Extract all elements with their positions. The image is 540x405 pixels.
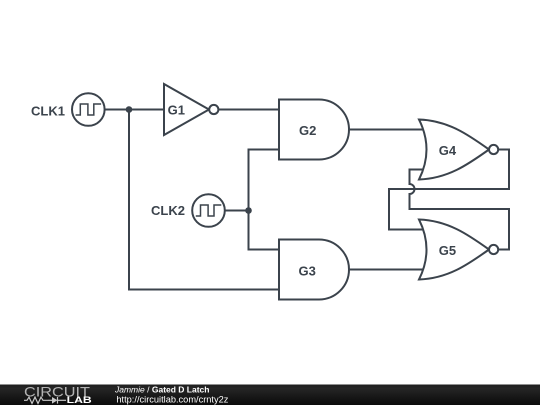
svg-text:CLK2: CLK2 bbox=[151, 203, 185, 218]
svg-text:G4: G4 bbox=[439, 143, 457, 158]
svg-text:CLK1: CLK1 bbox=[31, 104, 65, 119]
svg-text:G2: G2 bbox=[299, 123, 316, 138]
svg-text:G1: G1 bbox=[168, 102, 185, 117]
svg-text:G5: G5 bbox=[439, 243, 456, 258]
svg-text:G3: G3 bbox=[299, 263, 316, 278]
svg-text:LAB: LAB bbox=[67, 395, 93, 405]
svg-text:http://circuitlab.com/crnty2z: http://circuitlab.com/crnty2z bbox=[116, 394, 229, 404]
svg-text:Jammie / Gated D Latch: Jammie / Gated D Latch bbox=[114, 385, 209, 395]
